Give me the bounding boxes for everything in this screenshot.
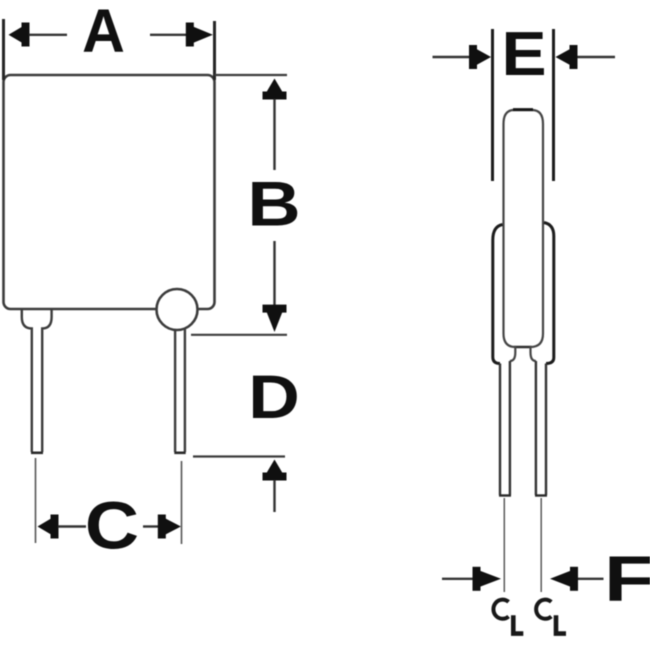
extension line bottom of dim D [193, 455, 285, 457]
extension line right of dim E [552, 29, 555, 181]
dim A left arrow [9, 23, 30, 47]
bump circle at right lead root [157, 289, 198, 330]
side lead left cap [499, 494, 511, 496]
svg-text:C: C [85, 489, 139, 563]
capsule bottom flat [514, 346, 531, 349]
extension line right of dim C [181, 461, 183, 544]
dim A right arrow [186, 23, 213, 47]
dim E left arrow [469, 45, 491, 69]
wire: dim C right tail [143, 525, 159, 527]
extension line left of dim C [35, 458, 37, 543]
centerline under left lead [503, 498, 505, 592]
dim C left arrow [38, 515, 59, 539]
capsule bottom V-split [504, 334, 516, 362]
side body inner capsule [504, 110, 544, 334]
centerline under right lead [540, 498, 542, 592]
dim F left arrow [473, 567, 502, 591]
side lead left [499, 364, 501, 496]
extension line right of dim A [213, 21, 216, 80]
wire: dim B top tail [273, 99, 275, 170]
wire: dim E left tail [433, 56, 470, 58]
dim C right arrow [158, 515, 181, 539]
dim D up arrow [263, 460, 287, 481]
dim F right arrow [550, 567, 578, 591]
left lead bottom cap [31, 451, 43, 454]
centre line symbol left [493, 600, 523, 634]
svg-text:A: A [82, 0, 125, 65]
svg-text:B: B [247, 169, 300, 240]
svg-text:D: D [248, 364, 300, 432]
dim B top arrow [263, 79, 287, 100]
left lead funnel (front view) [22, 308, 32, 452]
extension line left of dim E [491, 29, 494, 181]
side body outer shoulder left [493, 225, 503, 364]
wire: dim C left tail [58, 525, 86, 527]
wire: dim B bottom tail [273, 241, 275, 305]
centre line symbol right [536, 600, 566, 634]
right lead (front view) [174, 330, 176, 453]
side lead right [535, 361, 537, 495]
capsule top flat accent [513, 108, 533, 111]
extension line bottom of dim B / top of dim D [191, 334, 287, 336]
svg-text:F: F [604, 543, 650, 615]
wire: dim F left tail [442, 578, 473, 580]
extension line left of dim A [2, 19, 5, 80]
wire: dim D arrow tail [273, 480, 275, 512]
extension line top of dim B [215, 74, 288, 76]
svg-text:E: E [501, 19, 546, 89]
dim B bottom arrow [263, 305, 287, 332]
wire: dim A right tail [150, 34, 187, 36]
wire: dim F right tail [578, 578, 604, 580]
dim E right arrow [556, 45, 578, 69]
component body (front view) [4, 75, 215, 309]
wire: dim E right tail [578, 56, 616, 58]
side body outer shoulder right [544, 223, 554, 364]
wire: dim A left tail [29, 34, 67, 36]
side lead right cap [535, 494, 547, 496]
right lead bottom cap [174, 451, 185, 454]
